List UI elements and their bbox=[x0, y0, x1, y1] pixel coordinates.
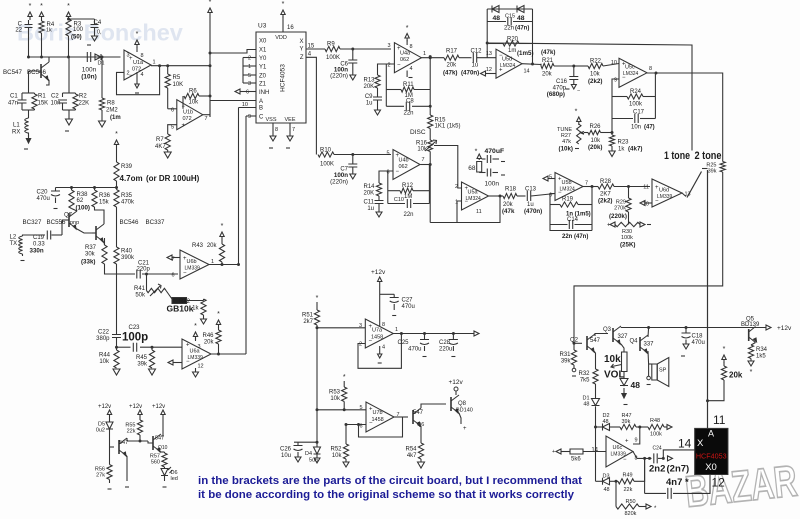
svg-text:U7a: U7a bbox=[372, 328, 383, 334]
svg-text:Z0: Z0 bbox=[259, 74, 267, 80]
svg-text:R7: R7 bbox=[156, 137, 164, 143]
svg-text:820k: 820k bbox=[625, 511, 637, 517]
svg-text:11: 11 bbox=[643, 185, 649, 191]
svg-text:100n: 100n bbox=[82, 67, 97, 74]
svg-text:C8: C8 bbox=[406, 99, 414, 105]
svg-text:X0: X0 bbox=[705, 462, 717, 473]
capacitor C11 1u bbox=[363, 196, 383, 217]
svg-text:X0: X0 bbox=[259, 39, 267, 45]
svg-text:327: 327 bbox=[618, 334, 629, 340]
transistor Q6 TX bbox=[92, 207, 105, 245]
trimmer R41 50k bbox=[134, 274, 172, 299]
op-amp U7b bbox=[359, 402, 399, 432]
svg-text:2: 2 bbox=[359, 342, 362, 348]
capacitor C23 bbox=[133, 343, 136, 352]
wire U1a pin4 down bbox=[135, 72, 139, 93]
wire U5b feedback box bbox=[550, 185, 594, 231]
resistor R37 30k (33k) bbox=[81, 238, 107, 268]
resistor R28 2K7 (2k2) bbox=[598, 179, 650, 205]
resistor R4 bbox=[39, 20, 55, 34]
svg-text:C27: C27 bbox=[402, 298, 414, 304]
capacitor C26 10u bbox=[280, 442, 303, 462]
svg-text:5: 5 bbox=[549, 175, 552, 181]
svg-text:led: led bbox=[171, 476, 178, 482]
resistor R53 10k bbox=[329, 374, 347, 411]
wire U5c out to 2-tone column bbox=[647, 73, 723, 162]
svg-text:(220k): (220k) bbox=[609, 213, 627, 220]
svg-text:1: 1 bbox=[248, 64, 251, 70]
svg-text:R9: R9 bbox=[327, 42, 335, 48]
svg-text:27k: 27k bbox=[96, 473, 105, 479]
svg-text:11: 11 bbox=[476, 209, 482, 215]
svg-text:5: 5 bbox=[359, 405, 362, 411]
svg-text:U6b: U6b bbox=[187, 259, 197, 265]
svg-text:R41: R41 bbox=[134, 286, 146, 292]
wire U5a feedback bbox=[430, 195, 501, 223]
resistor R45 39k bbox=[136, 347, 156, 375]
svg-text:GB10k: GB10k bbox=[167, 304, 194, 314]
svg-text:39k: 39k bbox=[561, 359, 572, 365]
wire U7b feedback bbox=[345, 417, 403, 437]
capacitor C10 22n bbox=[394, 197, 414, 218]
svg-text:10k: 10k bbox=[590, 72, 601, 78]
inductor L2 TX bbox=[10, 235, 46, 261]
svg-text:LM339: LM339 bbox=[657, 194, 673, 200]
svg-text:VDD: VDD bbox=[275, 35, 287, 41]
svg-text:*: * bbox=[115, 131, 118, 138]
svg-text:39k: 39k bbox=[708, 169, 717, 175]
svg-text:547: 547 bbox=[590, 338, 601, 344]
svg-text:(470n): (470n) bbox=[524, 208, 542, 215]
capacitor C2, resistor R2 tank bbox=[51, 57, 90, 119]
svg-text:270k: 270k bbox=[614, 206, 626, 212]
svg-text:380p: 380p bbox=[96, 336, 110, 342]
svg-text:1: 1 bbox=[423, 51, 426, 57]
svg-text:C11: C11 bbox=[363, 200, 374, 206]
svg-text:337: 337 bbox=[644, 342, 655, 348]
svg-text:+12v: +12v bbox=[129, 404, 142, 410]
svg-text:062: 062 bbox=[399, 164, 408, 170]
svg-text:1u: 1u bbox=[472, 63, 479, 69]
wire U7a feedback bbox=[358, 332, 403, 368]
svg-text:Y0: Y0 bbox=[259, 56, 267, 62]
svg-text:+12v: +12v bbox=[371, 269, 386, 276]
capacitor 4n7 bbox=[645, 458, 710, 499]
resistor R14 20K bbox=[364, 171, 388, 197]
svg-text:6: 6 bbox=[246, 90, 249, 96]
op-amp U5d bbox=[486, 49, 522, 78]
wire supply rail x210 bbox=[208, 0, 212, 117]
svg-text:62: 62 bbox=[77, 198, 84, 204]
svg-text:*: * bbox=[221, 223, 224, 230]
svg-text:BD140: BD140 bbox=[456, 408, 473, 414]
power arrow V+ (R4) bbox=[39, 3, 43, 20]
resistor R6 10k bbox=[168, 89, 210, 109]
resistor R10 100K bbox=[318, 148, 391, 168]
svg-text:R44: R44 bbox=[99, 353, 111, 359]
wire U1a feedback bbox=[117, 66, 160, 95]
svg-text:R39: R39 bbox=[121, 164, 133, 170]
svg-text:in the brackets are the parts: in the brackets are the parts of the cir… bbox=[198, 475, 582, 487]
resistor R5 10K bbox=[165, 66, 183, 109]
svg-text:R48: R48 bbox=[650, 418, 660, 424]
labels +12v x3 bbox=[98, 404, 165, 410]
switch lever bbox=[687, 169, 708, 198]
svg-text:13: 13 bbox=[486, 51, 492, 57]
svg-text:2k7: 2k7 bbox=[303, 319, 313, 325]
capacitor C20 470u bbox=[37, 188, 61, 209]
svg-text:R45: R45 bbox=[136, 355, 148, 361]
wire 1 tone contact bbox=[487, 43, 692, 151]
ground L1 bbox=[24, 135, 31, 149]
svg-text:100K: 100K bbox=[326, 55, 340, 61]
svg-text:(10n): (10n) bbox=[81, 74, 97, 81]
transistor Q9 547 bbox=[110, 438, 149, 487]
svg-text:(47k): (47k) bbox=[443, 70, 457, 77]
svg-text:7: 7 bbox=[585, 181, 588, 187]
label 2n2 (2n7) bbox=[649, 464, 689, 475]
svg-text:5: 5 bbox=[386, 151, 389, 157]
svg-text:A: A bbox=[708, 429, 714, 439]
svg-text:R6: R6 bbox=[189, 89, 197, 95]
svg-text:48: 48 bbox=[583, 402, 589, 408]
svg-text:*: * bbox=[723, 346, 726, 353]
svg-text:12: 12 bbox=[486, 67, 492, 73]
note text line 1 bbox=[198, 475, 582, 487]
wire U7a pin4 bbox=[378, 346, 382, 363]
svg-text:1k: 1k bbox=[618, 147, 625, 153]
note text line 2 bbox=[198, 489, 575, 501]
capacitor C3 22 bbox=[15, 20, 32, 34]
op-amp U5b bbox=[549, 173, 588, 201]
pin 15 wire bbox=[306, 44, 325, 50]
wire +12v right bbox=[741, 325, 792, 332]
svg-text:U5b: U5b bbox=[562, 180, 572, 186]
svg-text:0u2: 0u2 bbox=[96, 428, 105, 434]
svg-text:BC546: BC546 bbox=[120, 219, 139, 226]
svg-text:220p: 220p bbox=[137, 267, 151, 273]
wires U3 Y0 Y1 Z0 Z1 bbox=[243, 58, 256, 84]
svg-text:1: 1 bbox=[153, 60, 156, 66]
svg-text:−: − bbox=[183, 271, 187, 277]
svg-text:100K: 100K bbox=[320, 162, 334, 168]
resistor R17 20k (47k) bbox=[443, 49, 472, 77]
capacitor C13 1u (470n) bbox=[524, 187, 555, 216]
svg-text:1u: 1u bbox=[367, 206, 374, 212]
arrow U6a minus input bbox=[168, 360, 182, 365]
wire U3 pin B bbox=[239, 108, 257, 266]
capacitor C17 10n (47) bbox=[631, 110, 655, 131]
svg-text:X: X bbox=[697, 438, 704, 449]
svg-text:(100): (100) bbox=[76, 205, 90, 212]
svg-text:20k: 20k bbox=[729, 371, 743, 380]
diode D1 48 series bbox=[582, 396, 599, 482]
svg-text:R53: R53 bbox=[329, 390, 341, 396]
svg-text:10k: 10k bbox=[604, 354, 621, 365]
svg-text:22n: 22n bbox=[504, 26, 514, 32]
svg-text:C14: C14 bbox=[567, 217, 579, 223]
svg-text:4: 4 bbox=[410, 66, 413, 72]
supply cluster 470uF 68 100n bbox=[468, 148, 505, 188]
trimmer R27 TUNE (10k) bbox=[557, 109, 584, 153]
svg-text:470u: 470u bbox=[402, 304, 415, 310]
svg-text:*: * bbox=[29, 3, 32, 10]
IC HCF4053 black box bbox=[695, 428, 728, 474]
svg-text:(2n7): (2n7) bbox=[667, 464, 690, 475]
svg-text:20k: 20k bbox=[542, 72, 553, 78]
svg-text:−: − bbox=[397, 63, 401, 69]
power arrow U1a bbox=[135, 31, 139, 52]
svg-text:9: 9 bbox=[614, 78, 617, 84]
svg-text:12: 12 bbox=[712, 476, 726, 490]
svg-text:(47k): (47k) bbox=[541, 49, 555, 56]
arrow U5d pin12 bbox=[481, 71, 497, 76]
capacitor C19 0.33 330n bbox=[30, 220, 63, 255]
svg-text:Y1: Y1 bbox=[259, 65, 267, 71]
svg-text:R12: R12 bbox=[402, 183, 414, 189]
svg-text:10k: 10k bbox=[332, 453, 343, 459]
svg-text:1: 1 bbox=[395, 327, 398, 333]
capacitor C23 100p label bbox=[122, 325, 148, 344]
svg-text:R52: R52 bbox=[330, 447, 342, 453]
resistor R40 390k bbox=[114, 207, 135, 335]
capacitor C14 22n (47n) bbox=[550, 217, 592, 240]
svg-text:U6a: U6a bbox=[190, 349, 201, 355]
svg-text:+: + bbox=[552, 449, 555, 455]
svg-text:Q10: Q10 bbox=[158, 445, 168, 451]
svg-text:A: A bbox=[259, 99, 263, 105]
svg-text:U5c: U5c bbox=[625, 65, 635, 71]
svg-text:Z1: Z1 bbox=[259, 82, 267, 88]
svg-text:4K7: 4K7 bbox=[155, 144, 166, 150]
svg-text:2M2: 2M2 bbox=[106, 108, 118, 114]
transistor Q2 547 bbox=[570, 334, 601, 352]
svg-text:U6c: U6c bbox=[613, 445, 623, 451]
wire U6a pin down bbox=[193, 368, 199, 377]
svg-text:547: 547 bbox=[413, 410, 424, 416]
svg-text:R50: R50 bbox=[626, 499, 636, 505]
svg-text:L2: L2 bbox=[10, 235, 17, 241]
capacitor C16 470p (680p) bbox=[547, 66, 580, 98]
svg-text:470u: 470u bbox=[408, 347, 421, 353]
svg-text:−: − bbox=[622, 75, 626, 81]
svg-text:470u: 470u bbox=[692, 340, 705, 346]
svg-text:−: − bbox=[369, 421, 373, 427]
svg-text:C15: C15 bbox=[505, 14, 515, 20]
svg-text:L1: L1 bbox=[13, 123, 20, 129]
svg-text:+: + bbox=[463, 426, 467, 432]
svg-text:220u: 220u bbox=[439, 347, 452, 353]
svg-text:DISC: DISC bbox=[410, 129, 426, 136]
svg-text:Q8: Q8 bbox=[458, 401, 467, 407]
resistor R11 1M bbox=[401, 82, 414, 99]
zener D4 5u6 bbox=[305, 442, 321, 463]
wire bbox=[69, 19, 95, 57]
transistor Q8 BD140 bbox=[451, 395, 473, 414]
svg-text:470uF: 470uF bbox=[485, 148, 505, 155]
svg-text:R8: R8 bbox=[107, 101, 115, 107]
wire to U7b pin5 bbox=[316, 408, 367, 411]
wire base rail bbox=[294, 410, 319, 444]
svg-text:22n (47n): 22n (47n) bbox=[562, 234, 588, 240]
svg-text:R18: R18 bbox=[505, 187, 517, 193]
svg-text:7k5: 7k5 bbox=[580, 378, 590, 384]
svg-text:3: 3 bbox=[248, 81, 251, 87]
svg-text:it be done according to the or: it be done according to the original sch… bbox=[198, 489, 575, 501]
label BC546 BC337 bbox=[120, 219, 165, 226]
svg-text:Q3: Q3 bbox=[603, 327, 612, 333]
svg-text:+: + bbox=[182, 123, 186, 129]
svg-text:8: 8 bbox=[382, 322, 385, 328]
svg-text:6: 6 bbox=[171, 108, 174, 114]
svg-text:6: 6 bbox=[171, 273, 174, 279]
svg-text:D1: D1 bbox=[98, 61, 105, 67]
svg-text:(470n): (470n) bbox=[461, 70, 479, 77]
resistor R34 1k5 bbox=[748, 343, 768, 377]
power arrow V+ (C3) bbox=[28, 3, 32, 20]
wire top audio rail bbox=[621, 326, 741, 329]
svg-text:U4b: U4b bbox=[399, 158, 409, 164]
svg-text:8: 8 bbox=[141, 53, 144, 59]
resistor R56 27k bbox=[95, 465, 112, 490]
svg-text:15K: 15K bbox=[38, 101, 49, 107]
svg-text:C24: C24 bbox=[653, 446, 662, 452]
resistor R7 4K7 bbox=[155, 125, 177, 158]
wire TX rail bbox=[56, 181, 119, 190]
svg-text:(50): (50) bbox=[71, 35, 82, 41]
svg-text:+: + bbox=[499, 68, 503, 74]
svg-text:C17: C17 bbox=[633, 110, 645, 116]
svg-text:−: − bbox=[577, 88, 580, 94]
svg-text:10K: 10K bbox=[173, 82, 184, 88]
svg-text:14: 14 bbox=[524, 69, 530, 75]
wire pole down to HCF4053 bbox=[706, 170, 709, 428]
svg-text:7: 7 bbox=[205, 116, 208, 122]
svg-text:C2: C2 bbox=[51, 94, 59, 100]
svg-text:(20k): (20k) bbox=[588, 144, 602, 151]
op-amp U4a bbox=[387, 43, 426, 73]
svg-text:2n2: 2n2 bbox=[649, 464, 665, 475]
svg-text:1458: 1458 bbox=[371, 335, 383, 341]
resistor R23 1k (4k7) bbox=[609, 135, 643, 157]
svg-text:BC547: BC547 bbox=[3, 69, 22, 76]
power arrow R39 bbox=[114, 131, 118, 148]
svg-text:47k: 47k bbox=[562, 139, 571, 145]
label 4.7om (or DR 100uH) bbox=[120, 174, 200, 183]
transistor Q1 BC547 bbox=[3, 57, 49, 85]
svg-text:R40: R40 bbox=[121, 249, 133, 255]
svg-text:072: 072 bbox=[183, 116, 192, 122]
svg-text:4: 4 bbox=[382, 345, 385, 351]
svg-text:−: − bbox=[655, 199, 659, 205]
svg-text:X: X bbox=[299, 39, 303, 45]
svg-text:20K: 20K bbox=[364, 191, 375, 197]
resistor R49 22k bbox=[612, 458, 645, 493]
arrow down C4 bbox=[87, 28, 98, 46]
svg-text:2 tone: 2 tone bbox=[695, 150, 722, 162]
svg-text:R2: R2 bbox=[79, 94, 87, 100]
svg-text:INH: INH bbox=[259, 90, 269, 96]
svg-text:R43: R43 bbox=[192, 243, 204, 249]
svg-text:R46: R46 bbox=[202, 333, 214, 339]
svg-text:*: * bbox=[217, 311, 220, 318]
wire U1a output bbox=[151, 64, 210, 67]
svg-text:R11: R11 bbox=[403, 82, 414, 88]
wire C22 node bbox=[115, 346, 182, 349]
svg-text:1u: 1u bbox=[366, 101, 373, 107]
svg-text:R42: R42 bbox=[179, 299, 191, 305]
svg-text:22K: 22K bbox=[79, 101, 90, 107]
svg-text:C13: C13 bbox=[525, 187, 537, 193]
wire U1a out to X1 bbox=[210, 50, 256, 54]
svg-text:+12v: +12v bbox=[152, 404, 165, 410]
svg-text:U4a: U4a bbox=[400, 51, 411, 57]
svg-text:Y: Y bbox=[299, 47, 303, 53]
svg-text:20K: 20K bbox=[364, 84, 375, 90]
wire U3 pin C bbox=[246, 116, 256, 354]
svg-text:9: 9 bbox=[635, 438, 638, 444]
pin label 11 bbox=[713, 413, 726, 427]
IC U3 HCF4053 bbox=[256, 23, 306, 124]
svg-text:R24: R24 bbox=[630, 89, 642, 95]
svg-text:U5a: U5a bbox=[468, 190, 479, 196]
svg-text:C16: C16 bbox=[556, 79, 568, 85]
op-amp U7a bbox=[359, 319, 398, 351]
svg-text:4n7 *: 4n7 * bbox=[666, 477, 689, 488]
resistor R32 7k5 bbox=[578, 369, 598, 399]
potentiometer VOL 10k bbox=[604, 352, 627, 381]
svg-text:20k: 20k bbox=[447, 63, 458, 69]
resistor R25 39k bbox=[706, 162, 725, 175]
svg-text:48: 48 bbox=[493, 15, 501, 22]
resistor R35 470k bbox=[114, 190, 135, 208]
wire U6c output node bbox=[633, 452, 652, 460]
label +12v U7a bbox=[371, 269, 386, 326]
svg-text:C25: C25 bbox=[397, 340, 409, 346]
svg-text:48: 48 bbox=[517, 15, 525, 22]
resistor R47 39k bbox=[620, 413, 648, 430]
svg-text:(10k): (10k) bbox=[559, 146, 573, 153]
svg-text:*: * bbox=[406, 25, 409, 32]
svg-text:7: 7 bbox=[292, 127, 295, 133]
svg-text:50k: 50k bbox=[135, 293, 146, 299]
svg-text:U7b: U7b bbox=[373, 410, 383, 416]
inductor L1 RX bbox=[12, 118, 29, 137]
resistor R48 100k bbox=[648, 418, 672, 438]
svg-text:LM339: LM339 bbox=[188, 355, 204, 361]
op-amp U1a bbox=[124, 50, 156, 80]
svg-text:8: 8 bbox=[275, 127, 278, 133]
svg-text:11: 11 bbox=[713, 413, 726, 427]
svg-text:+12v: +12v bbox=[449, 379, 464, 386]
svg-text:16: 16 bbox=[287, 25, 294, 31]
watermark Boris Bonchev bbox=[17, 20, 183, 46]
svg-text:3: 3 bbox=[387, 43, 390, 49]
svg-text:100n: 100n bbox=[485, 181, 500, 188]
capacitor C9 1u bbox=[365, 88, 382, 115]
svg-text:LM324: LM324 bbox=[560, 187, 576, 193]
wire R51 to U7a bbox=[317, 327, 365, 329]
svg-text:4.7om: 4.7om bbox=[120, 174, 143, 183]
svg-text:−: − bbox=[369, 339, 373, 345]
svg-text:7: 7 bbox=[422, 157, 425, 163]
svg-text:*: * bbox=[343, 374, 346, 381]
arrow U6b pin7 bbox=[167, 255, 180, 260]
svg-text:C20: C20 bbox=[37, 190, 49, 196]
svg-text:U1a: U1a bbox=[133, 60, 144, 66]
svg-text:22k: 22k bbox=[624, 487, 633, 493]
resistor R3 bbox=[66, 18, 84, 41]
